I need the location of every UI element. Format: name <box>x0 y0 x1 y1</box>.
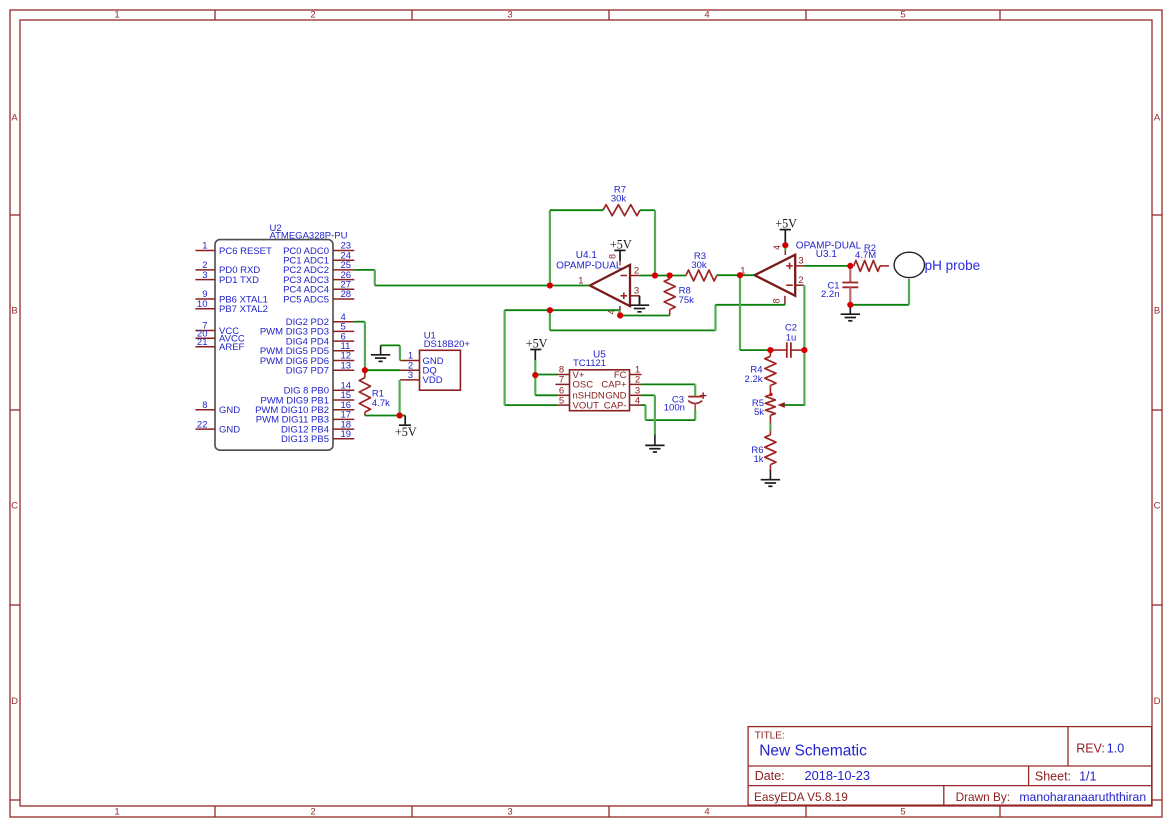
svg-text:3: 3 <box>202 270 207 281</box>
svg-text:3: 3 <box>634 286 639 297</box>
svg-text:+5V: +5V <box>395 425 417 439</box>
svg-text:Drawn By:: Drawn By: <box>956 790 1010 804</box>
svg-text:8: 8 <box>607 254 617 259</box>
svg-text:ATMEGA328P-PU: ATMEGA328P-PU <box>270 231 348 242</box>
svg-text:4.7M: 4.7M <box>855 250 876 261</box>
svg-text:19: 19 <box>341 429 352 440</box>
svg-text:+5V: +5V <box>610 237 632 251</box>
svg-text:manoharanaaruththiran: manoharanaaruththiran <box>1019 790 1146 804</box>
svg-text:2: 2 <box>310 807 315 818</box>
svg-text:75k: 75k <box>679 295 695 306</box>
svg-text:3: 3 <box>798 256 803 267</box>
svg-text:2.2k: 2.2k <box>745 374 763 385</box>
svg-text:4: 4 <box>772 245 782 250</box>
svg-text:7: 7 <box>559 375 564 386</box>
svg-text:EasyEDA V5.8.19: EasyEDA V5.8.19 <box>754 790 848 804</box>
svg-text:5k: 5k <box>754 407 764 418</box>
svg-text:1.0: 1.0 <box>1107 741 1124 755</box>
svg-text:+5V: +5V <box>526 336 548 350</box>
svg-text:GND: GND <box>219 405 240 416</box>
svg-text:VDD: VDD <box>423 375 443 386</box>
svg-text:1/1: 1/1 <box>1079 769 1096 783</box>
svg-text:CAP-: CAP- <box>604 400 627 411</box>
svg-text:4: 4 <box>635 395 640 406</box>
svg-text:B: B <box>11 306 17 317</box>
svg-text:8: 8 <box>202 400 207 411</box>
svg-text:C: C <box>11 501 18 512</box>
svg-text:OSC: OSC <box>573 380 594 391</box>
svg-text:2: 2 <box>310 10 315 21</box>
svg-text:C: C <box>1154 501 1161 512</box>
svg-text:PB7 XTAL2: PB7 XTAL2 <box>219 304 268 315</box>
svg-text:3: 3 <box>507 10 512 21</box>
svg-text:TITLE:: TITLE: <box>755 731 785 742</box>
svg-text:D: D <box>11 696 18 707</box>
svg-text:TC1121: TC1121 <box>573 358 606 369</box>
svg-text:pH probe: pH probe <box>925 258 981 273</box>
svg-text:4: 4 <box>704 807 709 818</box>
svg-text:REV:: REV: <box>1076 741 1105 755</box>
svg-text:3: 3 <box>408 370 413 381</box>
svg-text:DIG13 PB5: DIG13 PB5 <box>281 434 329 445</box>
svg-text:1: 1 <box>202 241 207 252</box>
svg-text:5: 5 <box>900 10 905 21</box>
svg-text:2018-10-23: 2018-10-23 <box>805 768 870 783</box>
svg-text:B: B <box>1154 306 1160 317</box>
svg-text:2: 2 <box>634 265 639 276</box>
svg-text:DIG7 PD7: DIG7 PD7 <box>286 366 329 377</box>
svg-text:A: A <box>11 112 18 123</box>
svg-text:30k: 30k <box>611 194 627 205</box>
svg-text:PC6 RESET: PC6 RESET <box>219 246 272 257</box>
svg-text:VOUT: VOUT <box>573 400 600 411</box>
svg-text:4.7k: 4.7k <box>372 398 390 409</box>
svg-text:2: 2 <box>798 275 803 286</box>
svg-text:AREF: AREF <box>219 342 245 353</box>
svg-text:28: 28 <box>341 289 352 300</box>
svg-text:U4.1: U4.1 <box>576 250 598 261</box>
svg-text:A: A <box>1154 112 1161 123</box>
svg-text:PC5 ADC5: PC5 ADC5 <box>283 294 329 305</box>
svg-text:1u: 1u <box>786 332 797 343</box>
svg-text:10: 10 <box>197 299 208 310</box>
svg-text:Sheet:: Sheet: <box>1035 769 1071 783</box>
svg-text:21: 21 <box>197 337 208 348</box>
svg-text:DS18B20+: DS18B20+ <box>424 339 471 350</box>
svg-text:OPAMP-DUAL: OPAMP-DUAL <box>556 261 622 272</box>
svg-text:2: 2 <box>635 375 640 386</box>
svg-text:30k: 30k <box>691 260 707 271</box>
svg-text:13: 13 <box>341 360 352 371</box>
svg-text:2.2n: 2.2n <box>821 289 840 300</box>
svg-text:4: 4 <box>704 10 709 21</box>
svg-text:Date:: Date: <box>755 769 785 783</box>
svg-text:100n: 100n <box>664 403 685 414</box>
svg-text:New Schematic: New Schematic <box>759 743 867 760</box>
svg-text:1k: 1k <box>753 454 763 465</box>
svg-text:5: 5 <box>559 395 564 406</box>
svg-text:1: 1 <box>114 807 119 818</box>
svg-text:PD1 TXD: PD1 TXD <box>219 275 259 286</box>
svg-text:22: 22 <box>197 419 208 430</box>
svg-text:8: 8 <box>772 298 782 303</box>
svg-text:5: 5 <box>900 807 905 818</box>
svg-text:1: 1 <box>114 10 119 21</box>
svg-text:GND: GND <box>219 424 240 435</box>
svg-text:CAP+: CAP+ <box>601 380 627 391</box>
svg-text:U3.1: U3.1 <box>816 249 838 260</box>
svg-text:+5V: +5V <box>775 217 797 231</box>
svg-text:D: D <box>1154 696 1161 707</box>
svg-text:3: 3 <box>507 807 512 818</box>
